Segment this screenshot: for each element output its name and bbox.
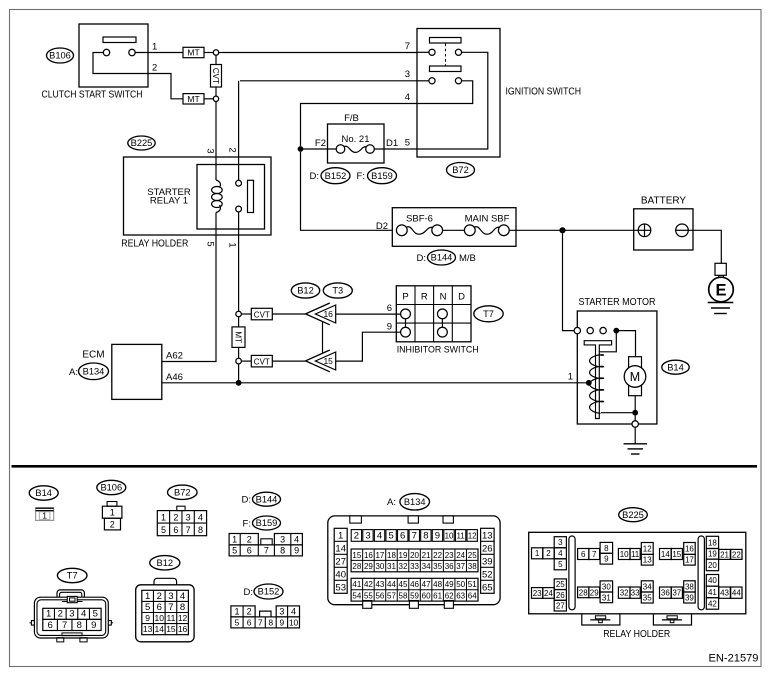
wire <box>238 347 240 358</box>
svg-text:9: 9 <box>145 613 150 623</box>
svg-text:INHIBITOR SWITCH: INHIBITOR SWITCH <box>397 345 479 355</box>
junction circle pin1 lower <box>236 358 242 364</box>
svg-text:7: 7 <box>168 602 173 613</box>
svg-text:1: 1 <box>145 591 150 602</box>
svg-text:MT: MT <box>187 94 199 104</box>
svg-text:45: 45 <box>399 580 408 589</box>
inhibitor switch T7 <box>396 286 478 355</box>
svg-text:R: R <box>421 292 428 303</box>
MT box lower <box>183 94 204 104</box>
svg-text:36: 36 <box>445 562 454 571</box>
connector B144/B159 <box>229 534 302 556</box>
svg-text:4: 4 <box>180 591 185 602</box>
svg-text:6: 6 <box>157 602 162 613</box>
svg-text:14: 14 <box>661 550 670 559</box>
svg-text:T7: T7 <box>483 309 494 319</box>
svg-text:15: 15 <box>672 550 681 559</box>
svg-text:B159: B159 <box>371 171 393 181</box>
solenoid plunger <box>584 341 611 419</box>
svg-text:B134: B134 <box>83 367 105 377</box>
svg-text:55: 55 <box>364 592 373 601</box>
svg-text:5: 5 <box>232 546 237 556</box>
svg-text:51: 51 <box>468 580 477 589</box>
svg-text:8: 8 <box>198 525 203 535</box>
CVT box vertical <box>211 65 222 88</box>
svg-text:5: 5 <box>388 531 393 542</box>
svg-text:33: 33 <box>631 589 640 598</box>
wire A46 to starter motor pin1 <box>162 382 589 384</box>
svg-text:27: 27 <box>335 557 346 568</box>
starter relay 1 <box>147 165 264 230</box>
ground E <box>708 263 734 313</box>
svg-text:25: 25 <box>556 580 565 589</box>
svg-text:47: 47 <box>422 580 431 589</box>
connector T7 <box>30 590 114 642</box>
svg-text:B106: B106 <box>49 51 71 61</box>
svg-text:CVT: CVT <box>254 310 270 319</box>
svg-text:44: 44 <box>387 580 396 589</box>
svg-text:63: 63 <box>456 592 465 601</box>
svg-text:B106: B106 <box>100 483 122 493</box>
svg-text:43: 43 <box>375 580 384 589</box>
wire MT to junction lower <box>204 98 213 100</box>
svg-text:1: 1 <box>232 534 237 544</box>
connector tag F:B159 <box>243 516 281 530</box>
CVT box upper <box>251 308 272 320</box>
svg-text:23: 23 <box>445 551 454 560</box>
svg-text:15: 15 <box>323 356 333 366</box>
svg-text:34: 34 <box>643 582 652 591</box>
svg-text:5: 5 <box>558 560 563 569</box>
svg-text:1: 1 <box>110 508 115 518</box>
svg-text:37: 37 <box>456 562 465 571</box>
svg-text:4: 4 <box>377 531 382 542</box>
svg-text:RELAY HOLDER: RELAY HOLDER <box>603 629 670 640</box>
svg-text:RELAY HOLDER: RELAY HOLDER <box>121 238 188 249</box>
svg-text:60: 60 <box>422 592 431 601</box>
svg-text:22: 22 <box>433 551 442 560</box>
svg-text:3: 3 <box>168 591 173 602</box>
svg-text:D:: D: <box>310 171 320 182</box>
node <box>613 328 619 334</box>
wire junction down to relay coil <box>215 102 217 181</box>
svg-text:MT: MT <box>187 48 199 58</box>
wire node to coil <box>599 331 616 352</box>
svg-text:34: 34 <box>422 562 431 571</box>
svg-text:B159: B159 <box>256 518 278 528</box>
node pin1 on coil <box>586 380 592 386</box>
svg-text:7: 7 <box>62 620 67 631</box>
svg-text:2: 2 <box>354 531 359 542</box>
relay contact circles <box>236 180 242 186</box>
svg-text:D: D <box>458 292 465 303</box>
svg-text:8: 8 <box>268 618 273 628</box>
relay holder feet <box>582 614 692 640</box>
connector B106 <box>102 502 122 530</box>
svg-text:14: 14 <box>155 624 165 634</box>
wire battery to ground E <box>688 230 721 263</box>
wire gate16 to pin6 <box>336 313 401 315</box>
svg-text:12: 12 <box>178 613 188 623</box>
svg-text:2: 2 <box>157 591 162 602</box>
svg-text:61: 61 <box>433 592 442 601</box>
wire CVT to gate 15 <box>272 360 305 362</box>
svg-text:1: 1 <box>152 42 157 53</box>
junction circle upper <box>213 50 218 55</box>
wire between gates <box>322 321 324 353</box>
wire pin1 clutch to MT <box>135 52 183 54</box>
svg-text:2: 2 <box>247 607 252 617</box>
svg-text:2: 2 <box>110 520 115 530</box>
svg-text:9: 9 <box>294 546 299 556</box>
connector tag T7 <box>474 306 503 322</box>
svg-text:27: 27 <box>556 602 565 611</box>
svg-text:F:: F: <box>357 171 365 182</box>
svg-text:B225: B225 <box>131 138 153 148</box>
connector B225 <box>529 532 746 614</box>
wire junction to ignition pin7 <box>219 52 417 54</box>
wire pin3 down to relay contact <box>238 81 240 181</box>
ground <box>624 444 648 454</box>
connector B14 <box>36 508 54 521</box>
connector tag T3 <box>323 283 352 298</box>
svg-text:N: N <box>440 292 447 303</box>
svg-text:A:: A: <box>69 367 78 378</box>
solenoid coil <box>590 355 604 414</box>
svg-text:D:: D: <box>242 495 252 506</box>
svg-text:RELAY 1: RELAY 1 <box>150 196 188 207</box>
svg-text:35: 35 <box>433 562 442 571</box>
svg-text:STARTER MOTOR: STARTER MOTOR <box>579 297 656 308</box>
svg-text:7: 7 <box>264 546 269 556</box>
svg-text:B14: B14 <box>35 488 52 498</box>
gate 15 <box>306 350 336 372</box>
svg-text:36: 36 <box>661 589 670 598</box>
connector B152 <box>231 606 300 628</box>
svg-text:64: 64 <box>468 592 477 601</box>
svg-text:41: 41 <box>708 588 717 597</box>
wire relay pin5 to ECM A62 <box>162 213 216 362</box>
svg-text:38: 38 <box>468 562 477 571</box>
svg-text:1: 1 <box>568 371 573 382</box>
wire <box>241 360 251 362</box>
svg-text:MAIN SBF: MAIN SBF <box>465 214 510 225</box>
svg-text:5: 5 <box>405 138 410 149</box>
svg-text:8: 8 <box>423 531 428 542</box>
svg-text:6: 6 <box>581 550 586 559</box>
svg-text:9: 9 <box>435 531 440 542</box>
svg-text:31: 31 <box>602 593 611 602</box>
svg-text:B144: B144 <box>431 253 453 263</box>
svg-text:7: 7 <box>592 550 597 559</box>
svg-text:4: 4 <box>558 549 563 558</box>
wire CVT to gate 16 <box>272 313 305 315</box>
svg-text:15: 15 <box>352 551 361 560</box>
svg-text:29: 29 <box>364 562 373 571</box>
wire fuse D1 to ignition pin5 <box>374 148 417 150</box>
connector tag B106 bottom <box>97 480 126 494</box>
connector tag B14 bottom <box>29 486 58 500</box>
svg-text:21: 21 <box>422 551 431 560</box>
svg-text:58: 58 <box>399 592 408 601</box>
wire junction to CVT <box>215 55 217 64</box>
wire node to motor <box>616 331 635 357</box>
wire ignition pin3 <box>240 80 417 82</box>
svg-text:B152: B152 <box>258 587 280 597</box>
svg-text:2: 2 <box>152 63 157 74</box>
MT box vertical <box>232 327 245 348</box>
svg-text:7: 7 <box>412 531 417 542</box>
svg-text:13: 13 <box>482 531 493 542</box>
svg-text:T7: T7 <box>67 571 78 581</box>
svg-text:EN-21579: EN-21579 <box>709 652 759 664</box>
svg-text:6: 6 <box>387 303 392 314</box>
svg-text:40: 40 <box>708 576 717 585</box>
connector tag B12 <box>291 283 319 298</box>
svg-text:3: 3 <box>280 534 285 544</box>
connector ref D:B144 M/B <box>417 250 476 265</box>
connector tag T7 bottom <box>57 568 87 582</box>
svg-text:2: 2 <box>546 549 551 558</box>
svg-text:5: 5 <box>145 602 150 613</box>
svg-text:4: 4 <box>294 534 299 544</box>
svg-text:11: 11 <box>167 613 176 623</box>
connector tag D:B144 <box>242 492 281 506</box>
svg-text:B12: B12 <box>157 558 174 568</box>
svg-text:3: 3 <box>69 609 74 620</box>
case circle <box>632 421 638 427</box>
svg-text:B72: B72 <box>174 488 191 498</box>
svg-text:57: 57 <box>387 592 396 601</box>
svg-text:24: 24 <box>544 589 553 598</box>
svg-text:14: 14 <box>335 544 346 555</box>
svg-text:D:: D: <box>244 587 254 598</box>
svg-text:26: 26 <box>556 591 565 600</box>
svg-text:2: 2 <box>173 512 178 522</box>
svg-text:24: 24 <box>456 551 465 560</box>
svg-text:F2: F2 <box>315 138 326 149</box>
svg-text:53: 53 <box>335 583 346 594</box>
svg-text:28: 28 <box>352 562 361 571</box>
svg-text:4: 4 <box>405 92 410 103</box>
svg-text:50: 50 <box>456 580 465 589</box>
svg-text:No. 21: No. 21 <box>342 134 370 145</box>
wire MT to junction <box>204 52 213 54</box>
svg-text:B152: B152 <box>325 171 347 181</box>
svg-text:62: 62 <box>445 592 454 601</box>
svg-text:A46: A46 <box>166 372 183 383</box>
junction circle pin1 upper <box>236 311 242 317</box>
svg-text:5: 5 <box>205 241 216 246</box>
svg-text:15: 15 <box>166 624 176 634</box>
ECM <box>69 344 162 399</box>
svg-text:7: 7 <box>186 525 191 535</box>
wire coil bottom to node <box>601 412 635 414</box>
svg-text:11: 11 <box>456 532 465 541</box>
svg-text:10: 10 <box>289 618 299 628</box>
svg-text:16: 16 <box>323 309 333 319</box>
svg-text:31: 31 <box>387 562 396 571</box>
svg-text:B144: B144 <box>256 494 278 504</box>
MT box upper <box>183 47 204 57</box>
svg-text:52: 52 <box>482 570 493 581</box>
svg-text:BATTERY: BATTERY <box>641 196 687 207</box>
svg-text:21: 21 <box>720 550 729 559</box>
svg-text:23: 23 <box>533 589 542 598</box>
svg-text:SBF-6: SBF-6 <box>406 214 433 225</box>
svg-text:B225: B225 <box>622 510 644 520</box>
svg-text:22: 22 <box>732 550 741 559</box>
svg-text:9: 9 <box>91 620 96 631</box>
wire F2 to fuse <box>301 148 337 150</box>
svg-text:16: 16 <box>178 624 188 634</box>
svg-text:33: 33 <box>410 562 419 571</box>
connector tag B72 bottom <box>168 485 198 499</box>
svg-text:T3: T3 <box>332 286 343 296</box>
svg-text:9: 9 <box>604 555 609 564</box>
svg-text:5: 5 <box>93 609 98 620</box>
connector tag B225 <box>128 136 155 150</box>
wire pin2 clutch to MT <box>148 74 183 99</box>
svg-text:2: 2 <box>58 609 63 620</box>
svg-text:17: 17 <box>375 551 384 560</box>
svg-text:D1: D1 <box>386 138 398 149</box>
connector B72 <box>157 506 206 536</box>
svg-text:A62: A62 <box>166 351 183 362</box>
svg-text:6: 6 <box>173 525 178 535</box>
svg-text:13: 13 <box>143 624 153 634</box>
svg-text:ECM: ECM <box>82 350 104 361</box>
svg-text:8: 8 <box>280 546 285 556</box>
svg-text:28: 28 <box>579 588 588 597</box>
svg-text:41: 41 <box>352 580 361 589</box>
junction circle lower <box>213 96 218 101</box>
svg-text:12: 12 <box>643 544 652 553</box>
svg-text:CLUTCH START SWITCH: CLUTCH START SWITCH <box>42 90 143 101</box>
battery <box>634 196 693 251</box>
svg-text:43: 43 <box>720 589 729 598</box>
svg-text:8: 8 <box>180 602 185 613</box>
node F2 junction <box>298 146 304 152</box>
svg-text:4: 4 <box>291 607 296 617</box>
svg-text:39: 39 <box>482 557 493 568</box>
svg-text:18: 18 <box>708 538 717 547</box>
svg-text:B12: B12 <box>297 286 314 296</box>
relay contact bar <box>248 180 254 212</box>
svg-text:10: 10 <box>620 550 629 559</box>
connector tag B106 <box>47 48 74 63</box>
svg-text:18: 18 <box>387 551 396 560</box>
svg-text:30: 30 <box>375 562 384 571</box>
connector refs D:B152 F:B159 <box>310 168 397 184</box>
svg-text:M: M <box>630 370 640 384</box>
SBF fuse box <box>392 208 516 247</box>
svg-text:29: 29 <box>590 588 599 597</box>
clutch start switch <box>42 24 149 101</box>
svg-text:1: 1 <box>161 512 166 522</box>
svg-text:6: 6 <box>47 620 52 631</box>
svg-text:37: 37 <box>672 589 681 598</box>
svg-text:IGNITION SWITCH: IGNITION SWITCH <box>506 86 582 97</box>
junction node to starter <box>559 227 565 233</box>
svg-text:30: 30 <box>602 582 611 591</box>
relay coil <box>212 180 223 213</box>
svg-text:6: 6 <box>400 531 405 542</box>
motor M <box>624 357 646 396</box>
svg-text:56: 56 <box>375 592 384 601</box>
svg-text:59: 59 <box>410 592 419 601</box>
svg-text:3: 3 <box>186 512 191 522</box>
svg-text:7: 7 <box>258 618 263 628</box>
svg-text:2: 2 <box>247 534 252 544</box>
connector tag A:B134 <box>387 494 429 510</box>
svg-text:CVT: CVT <box>254 357 270 366</box>
svg-text:F/B: F/B <box>344 113 359 124</box>
wire SBF to battery <box>509 229 638 231</box>
svg-text:CVT: CVT <box>211 68 220 84</box>
svg-text:3: 3 <box>405 69 410 80</box>
wire <box>238 317 240 327</box>
svg-text:42: 42 <box>708 599 717 608</box>
svg-text:1: 1 <box>227 242 238 247</box>
svg-text:6: 6 <box>247 618 252 628</box>
svg-text:7: 7 <box>405 41 410 52</box>
svg-text:49: 49 <box>445 580 454 589</box>
svg-text:P: P <box>402 292 408 303</box>
svg-text:3: 3 <box>279 607 284 617</box>
svg-text:42: 42 <box>364 580 373 589</box>
svg-text:4: 4 <box>198 512 203 522</box>
svg-text:8: 8 <box>77 620 82 631</box>
svg-text:44: 44 <box>732 589 741 598</box>
svg-text:32: 32 <box>620 589 629 598</box>
svg-text:5: 5 <box>235 618 240 628</box>
solenoid contact circles <box>574 327 580 333</box>
connector tag B12 bottom <box>150 556 180 570</box>
svg-text:19: 19 <box>708 550 717 559</box>
wire gate15 to pin9 <box>336 332 401 361</box>
wire motor to node <box>634 396 636 413</box>
wire junction to starter motor <box>563 233 575 330</box>
svg-text:1: 1 <box>234 607 239 617</box>
svg-text:6: 6 <box>247 546 252 556</box>
relay holder box <box>121 157 271 249</box>
svg-text:4: 4 <box>81 609 86 620</box>
svg-text:40: 40 <box>335 570 346 581</box>
svg-text:2: 2 <box>227 147 238 152</box>
svg-text:MT: MT <box>234 331 243 343</box>
svg-text:5: 5 <box>161 525 166 535</box>
gate 16 <box>306 303 336 325</box>
svg-text:1: 1 <box>535 549 540 558</box>
svg-text:35: 35 <box>643 593 652 602</box>
fuse block F/B No.21 <box>328 113 385 163</box>
svg-text:39: 39 <box>685 593 694 602</box>
svg-text:9: 9 <box>280 618 285 628</box>
svg-text:10: 10 <box>445 532 454 541</box>
svg-text:E: E <box>715 282 726 300</box>
svg-text:65: 65 <box>482 583 493 594</box>
connector tag B225 bottom <box>619 508 648 522</box>
svg-text:D2: D2 <box>376 221 388 232</box>
wire relay pin1 down <box>238 212 240 311</box>
connector tag B14 <box>662 360 689 374</box>
svg-text:26: 26 <box>482 544 493 555</box>
wire to A46 node <box>238 364 240 383</box>
svg-text:19: 19 <box>399 551 408 560</box>
svg-text:46: 46 <box>410 580 419 589</box>
svg-text:38: 38 <box>685 582 694 591</box>
